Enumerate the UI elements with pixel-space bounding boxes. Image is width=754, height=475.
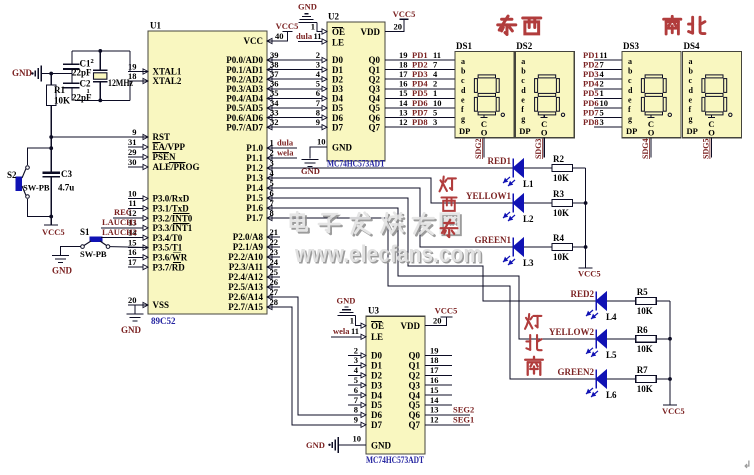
net PD8 stub to DS3 (583, 117, 622, 127)
svg-text:g: g (521, 115, 525, 124)
U3 pin 3 D1 stub (348, 355, 366, 368)
svg-text:P1.5: P1.5 (246, 193, 263, 203)
svg-text:DP: DP (519, 126, 530, 136)
svg-text:VDD: VDD (361, 27, 381, 37)
svg-text:PD6: PD6 (583, 98, 599, 108)
svg-text:f: f (461, 105, 464, 114)
net stub P1.0 dula (267, 138, 297, 149)
svg-text:20: 20 (394, 22, 403, 32)
svg-text:1: 1 (433, 88, 437, 98)
svg-text:www.elecfans.com: www.elecfans.com (294, 241, 482, 268)
svg-text:30: 30 (128, 157, 137, 167)
svg-text:17: 17 (430, 365, 439, 375)
svg-text:11: 11 (600, 50, 608, 60)
svg-text:14: 14 (430, 395, 439, 405)
wire P2.6 to U3 D6 (267, 297, 366, 415)
wire VSS to ground (135, 305, 148, 314)
svg-text:1: 1 (311, 22, 315, 32)
wire U2 Q6 / net PD7 to DS1 (385, 107, 455, 117)
U3 pin 7 D5 stub (348, 395, 366, 408)
svg-text:6: 6 (270, 188, 274, 198)
svg-text:U2: U2 (328, 12, 339, 22)
U3 pin 16 Q3 stub (425, 375, 452, 385)
wire P0.4 to U2 D4 (267, 88, 327, 101)
svg-text:LAUCH2: LAUCH2 (102, 227, 137, 237)
wire U2 Q5 / net PD6 to DS1 (385, 98, 455, 108)
U1 P2.4 stub (267, 276, 280, 278)
wire XTAL top node (72, 49, 130, 53)
svg-text:P3.1/TxD: P3.1/TxD (153, 204, 190, 214)
svg-text:c: c (461, 76, 465, 85)
svg-text:PD7: PD7 (412, 107, 428, 117)
svg-text:P1.3: P1.3 (246, 173, 263, 183)
svg-text:D3: D3 (371, 380, 382, 390)
wire SDG2 display common (474, 138, 484, 159)
svg-text:Q6: Q6 (408, 410, 420, 420)
wire S1 to P3.5 (110, 246, 148, 249)
svg-text:P1.6: P1.6 (246, 203, 263, 213)
svg-text:P3.5/T1: P3.5/T1 (153, 243, 183, 253)
op-amp U1 89C52 MCU body (148, 21, 267, 327)
wire P1.2 to RED1 (267, 167, 513, 169)
svg-text:36: 36 (270, 79, 279, 89)
svg-text:Q7: Q7 (368, 122, 380, 132)
svg-text:b: b (461, 67, 466, 76)
wire U2 Q4 / net PD5 to DS1 (385, 88, 455, 98)
svg-text:f: f (689, 105, 692, 114)
svg-text:L6: L6 (606, 390, 617, 400)
svg-text:PD2: PD2 (412, 59, 428, 69)
svg-text:P3.0/RxD: P3.0/RxD (153, 194, 190, 204)
U1 P2.5 stub (267, 286, 280, 288)
svg-text:Q1: Q1 (368, 65, 380, 75)
svg-text:R4: R4 (553, 233, 564, 243)
wire S1 to ground (61, 247, 81, 256)
svg-text:SEG1: SEG1 (453, 415, 474, 425)
svg-text:2: 2 (270, 148, 274, 158)
svg-text:12MHz: 12MHz (108, 78, 133, 88)
svg-text:dula: dula (296, 31, 313, 41)
ground GND below S1 (52, 256, 73, 276)
svg-text:RED1: RED1 (487, 156, 511, 166)
svg-text:P0.6/AD6: P0.6/AD6 (226, 113, 263, 123)
svg-text:MC74HC573ADT: MC74HC573ADT (366, 455, 424, 465)
svg-text:89C52: 89C52 (151, 316, 176, 326)
svg-text:PSEN: PSEN (153, 152, 177, 162)
net PD1 stub to DS3 (583, 50, 622, 60)
wire P0.5 to U2 D5 (267, 98, 327, 111)
U1 pin 37 P0.2/AD2 label (226, 74, 272, 84)
svg-text:GND: GND (371, 441, 392, 451)
U1 pin 14 P3.4/T0 stub (128, 228, 183, 243)
svg-text:3: 3 (270, 158, 274, 168)
U1 pin 11 P3.1/TxD stub (128, 198, 189, 213)
svg-text:P3.3/INT1: P3.3/INT1 (153, 223, 193, 233)
wire P1.3 to YELLOW1 (267, 178, 513, 203)
net PD7 stub to DS3 (583, 107, 622, 117)
svg-text:YELLOW1: YELLOW1 (466, 191, 512, 201)
svg-text:8: 8 (316, 107, 320, 117)
svg-text:9: 9 (316, 117, 320, 127)
resistor R7 10K (607, 365, 670, 394)
wire SDG5 display common (702, 138, 712, 159)
U1 pin 2 P1.1 label (246, 153, 272, 163)
svg-text:LE: LE (371, 332, 383, 342)
svg-text:5: 5 (354, 375, 358, 385)
U1 P2.1 stub (267, 246, 280, 248)
U1 pin 13 P3.3/INT1 stub (128, 218, 193, 233)
net PD2 stub to DS3 (583, 59, 622, 69)
U1 pin 15 P3.5/T1 stub (128, 237, 183, 252)
U3 pin labels (371, 321, 420, 451)
svg-text:VCC5: VCC5 (42, 227, 65, 237)
svg-text:23: 23 (270, 247, 279, 257)
net label REC on P3.2 (113, 207, 132, 218)
svg-text:11: 11 (433, 50, 441, 60)
svg-text:26: 26 (270, 277, 279, 287)
U1 pin 39 P0.0/AD0 label (226, 55, 272, 65)
U1 pin 27 P2.6/A14 label (228, 292, 272, 302)
svg-text:L1: L1 (523, 179, 534, 189)
wire U2 GND pin 10 to ground (310, 137, 327, 159)
svg-text:RST: RST (153, 132, 171, 142)
svg-text:e: e (461, 95, 465, 104)
svg-text:37: 37 (270, 69, 279, 79)
U1 P2.0 stub (267, 236, 280, 238)
svg-text:DS3: DS3 (623, 41, 640, 51)
svg-text:10: 10 (317, 137, 326, 147)
power VCC5 at U2 VDD pin 20 (385, 9, 415, 32)
svg-text:11: 11 (314, 31, 322, 41)
op-amp U3 MC74HC573 latch body (366, 306, 425, 466)
U3 pin 17 Q2 stub (425, 365, 452, 375)
svg-text:SDG5: SDG5 (702, 139, 711, 159)
U3 pin 13 Q6 stub (425, 405, 474, 415)
svg-text:10: 10 (128, 188, 137, 198)
svg-text:P1.0: P1.0 (246, 143, 263, 153)
U3 pin 12 Q7 stub (425, 415, 474, 425)
svg-text:D7: D7 (371, 420, 382, 430)
U1 pin 20 VSS stub (128, 295, 169, 310)
svg-text:DS1: DS1 (456, 41, 473, 51)
wire P1.6 to YELLOW2 (267, 208, 596, 339)
U1 pin 19 XTAL1 stub (128, 61, 182, 76)
svg-text:O: O (648, 128, 655, 138)
svg-text:P0.5/AD5: P0.5/AD5 (226, 103, 263, 113)
switch S2 SW-PB (7, 166, 50, 199)
svg-text:GND: GND (306, 440, 325, 450)
svg-text:D2: D2 (332, 74, 343, 84)
svg-text:11: 11 (351, 326, 359, 336)
svg-text:D1: D1 (332, 65, 343, 75)
svg-text:2: 2 (91, 58, 94, 65)
watermark text (291, 212, 484, 269)
wire to XTAL1 pin 19 (130, 51, 148, 72)
svg-text:PD8: PD8 (583, 117, 599, 127)
svg-text:1: 1 (270, 138, 274, 148)
svg-text:PD8: PD8 (412, 117, 428, 127)
svg-text:39: 39 (270, 50, 279, 60)
svg-text:10K: 10K (637, 384, 653, 394)
svg-text:D3: D3 (332, 84, 343, 94)
svg-text:20: 20 (128, 295, 137, 305)
svg-text:XTAL2: XTAL2 (153, 76, 182, 86)
svg-text:22: 22 (270, 237, 279, 247)
U1 pin 7 P1.6 label (246, 203, 272, 213)
svg-text:P1.4: P1.4 (246, 183, 263, 193)
svg-text:PD7: PD7 (583, 107, 599, 117)
svg-text:DP: DP (626, 126, 637, 136)
svg-text:P2.3/A11: P2.3/A11 (229, 262, 264, 272)
U1 pin 35 P0.4/AD4 label (226, 94, 272, 104)
svg-text:P0.2/AD2: P0.2/AD2 (226, 74, 263, 84)
svg-text:16: 16 (128, 247, 137, 257)
svg-text:SW-PB: SW-PB (23, 183, 50, 193)
LED L1 RED1 (487, 156, 534, 189)
svg-text:32: 32 (270, 117, 279, 127)
svg-text:b: b (521, 67, 526, 76)
svg-text:R1: R1 (54, 85, 65, 95)
svg-text:b: b (628, 67, 633, 76)
node east-west lamp vertical label (440, 177, 458, 237)
svg-text:a: a (689, 57, 693, 66)
svg-text:PD1: PD1 (583, 50, 599, 60)
wire XTAL bottom node (75, 99, 130, 103)
wire SDG4 display common (641, 138, 651, 159)
U3 pin 6 D4 stub (348, 385, 366, 398)
svg-text:LE: LE (332, 38, 344, 48)
svg-text:dula: dula (277, 138, 294, 148)
svg-text:C3: C3 (61, 169, 72, 179)
svg-text:DP: DP (459, 126, 470, 136)
svg-text:6: 6 (316, 88, 320, 98)
svg-text:wela: wela (277, 148, 294, 158)
svg-text:20: 20 (433, 316, 442, 326)
svg-text:a: a (628, 57, 632, 66)
node north-south title (664, 16, 705, 34)
svg-text:16: 16 (430, 375, 439, 385)
svg-text:Q2: Q2 (408, 371, 420, 381)
svg-text:d: d (689, 86, 694, 95)
svg-text:Q4: Q4 (408, 390, 420, 400)
svg-text:O: O (481, 128, 488, 138)
U1 pin 10 P3.0/RxD stub (128, 188, 190, 203)
U3 pin 14 Q5 stub (425, 395, 452, 405)
svg-text:18: 18 (399, 59, 408, 69)
net stub P1.1 wela (267, 148, 297, 159)
svg-text:S2: S2 (7, 170, 17, 180)
svg-text:21: 21 (270, 227, 279, 237)
svg-text:19: 19 (430, 345, 439, 355)
U1 pin 23 P2.2/A10 label (228, 252, 272, 262)
wire VCC rail north-south (668, 301, 672, 405)
7-segment display DS4 (683, 41, 742, 138)
svg-text:L4: L4 (606, 312, 617, 322)
svg-text:PD6: PD6 (412, 98, 428, 108)
U1 pin 24 P2.3/A11 label (229, 262, 272, 272)
svg-text:P0.4/AD4: P0.4/AD4 (226, 94, 263, 104)
svg-text:3: 3 (316, 59, 320, 69)
net PD4 stub to DS3 (583, 79, 622, 89)
wire U2 Q3 / net PD4 to DS1 (385, 79, 455, 89)
svg-text:EA/VPP: EA/VPP (153, 142, 186, 152)
wire P1.5 to RED2 (267, 198, 596, 301)
svg-text:GND: GND (332, 143, 353, 153)
svg-text:10K: 10K (553, 173, 569, 183)
svg-text:RED2: RED2 (570, 289, 594, 299)
svg-text:17: 17 (128, 257, 137, 267)
svg-text:6: 6 (354, 385, 358, 395)
wire P0.2 to U2 D2 (267, 69, 327, 82)
svg-text:VCC5: VCC5 (578, 269, 601, 279)
svg-text:2: 2 (354, 345, 358, 355)
svg-text:LAUCH1: LAUCH1 (102, 217, 137, 227)
svg-text:P2.0/A8: P2.0/A8 (233, 232, 264, 242)
svg-text:U3: U3 (368, 306, 379, 316)
power VCC5 at U3 VDD pin 20 (425, 306, 457, 326)
svg-text:27: 27 (270, 287, 279, 297)
ground GND at crystal caps (12, 66, 72, 82)
U1 pin 25 P2.4/A12 label (228, 272, 272, 282)
svg-text:38: 38 (270, 59, 279, 69)
svg-text:XTAL1: XTAL1 (153, 67, 182, 77)
capacitor C3 4.7u (43, 169, 75, 217)
svg-text:U1: U1 (150, 21, 161, 31)
7-segment display DS3 (622, 41, 681, 138)
U1 pin 16 P3.6/WR stub (128, 247, 188, 262)
svg-text:8: 8 (270, 208, 274, 218)
U1 pin 21 P2.0/A8 label (233, 232, 272, 242)
svg-text:5: 5 (600, 107, 604, 117)
wire U2 Q2 / net PD3 to DS1 (385, 69, 455, 79)
svg-text:3: 3 (433, 117, 437, 127)
svg-text:MC74HC573ADT: MC74HC573ADT (327, 159, 385, 169)
svg-text:1: 1 (350, 316, 354, 326)
svg-text:P2.4/A12: P2.4/A12 (228, 272, 263, 282)
wire P1.4 to GREEN1 (267, 188, 513, 247)
svg-text:VCC: VCC (244, 36, 264, 46)
U1 pin 32 P0.7/AD7 label (226, 122, 272, 132)
svg-text:PD2: PD2 (583, 59, 599, 69)
svg-text:e: e (521, 95, 525, 104)
resistor R1 10K (47, 74, 71, 106)
U3 pin 2 D0 stub (348, 345, 366, 358)
svg-text:D0: D0 (332, 55, 343, 65)
net label wela wire to U3 LE pin 11 (331, 326, 366, 339)
svg-text:ALE/PROG: ALE/PROG (153, 162, 200, 172)
svg-text:DS4: DS4 (684, 41, 701, 51)
svg-text:P0.7/AD7: P0.7/AD7 (226, 122, 263, 132)
svg-text:P2.2/A10: P2.2/A10 (228, 252, 263, 262)
svg-text:GND: GND (52, 266, 73, 276)
svg-text:4.7u: 4.7u (58, 183, 74, 193)
LED L4 RED2 (570, 289, 617, 322)
wire P2.7 to U3 D7 (267, 307, 366, 425)
svg-text:SW-PB: SW-PB (80, 249, 107, 259)
svg-text:L5: L5 (606, 350, 617, 360)
svg-text:12: 12 (399, 117, 408, 127)
svg-text:OE: OE (371, 321, 384, 331)
svg-text:YELLOW2: YELLOW2 (549, 327, 595, 337)
net label LAUCH2 on P3.4 (101, 227, 137, 238)
svg-text:2: 2 (316, 50, 320, 60)
U1 pin 31 EA/VPP stub (128, 137, 186, 152)
svg-text:40: 40 (275, 31, 284, 41)
svg-text:GND: GND (298, 2, 317, 12)
U3 pin 5 D3 stub (348, 375, 366, 388)
wire P0.3 to U2 D3 (267, 79, 327, 92)
ground GND above U3 OE pin 1 (337, 296, 367, 329)
svg-text:D2: D2 (371, 371, 382, 381)
net PD3 stub to DS3 (583, 69, 622, 79)
U1 pin 26 P2.5/A13 label (228, 282, 272, 292)
U1 pin 6 P1.5 label (246, 193, 272, 203)
crystal Y1 12MHz (87, 51, 134, 101)
U2 pin labels (332, 27, 380, 153)
U1 pin 22 P2.1/A9 label (233, 242, 272, 252)
svg-text:f: f (628, 105, 631, 114)
svg-text:e: e (689, 95, 693, 104)
wire U2 Q7 / net PD8 to DS1 (385, 117, 455, 127)
wire P0.0 to U2 D0 (267, 50, 327, 63)
svg-text:e: e (628, 95, 632, 104)
U1 pin 36 P0.3/AD3 label (226, 84, 272, 94)
wire U2 Q0 / net PD1 to DS1 (385, 50, 455, 60)
wire S2 top branch (28, 146, 54, 165)
U3 pin 15 Q4 stub (425, 385, 452, 395)
svg-text:SDG2: SDG2 (474, 139, 483, 159)
svg-text:R6: R6 (637, 325, 648, 335)
svg-text:c: c (521, 76, 525, 85)
svg-text:D5: D5 (332, 103, 343, 113)
svg-text:VCC5: VCC5 (435, 306, 458, 316)
svg-text:15: 15 (430, 385, 439, 395)
svg-text:L2: L2 (523, 214, 534, 224)
svg-text:2: 2 (433, 79, 437, 89)
svg-text:R3: R3 (553, 189, 564, 199)
svg-text:10K: 10K (553, 208, 569, 218)
U1 pin 38 P0.1/AD1 label (226, 65, 272, 75)
net label dula wire to U2 LE pin 11 (296, 31, 327, 44)
svg-text:↲: ↲ (743, 460, 751, 470)
svg-text:SDG4: SDG4 (641, 139, 650, 159)
svg-text:VDD: VDD (401, 321, 421, 331)
resistor R2 10K (524, 154, 586, 183)
svg-text:19: 19 (399, 50, 408, 60)
svg-text:24: 24 (270, 257, 279, 267)
svg-text:10K: 10K (553, 252, 569, 262)
svg-text:14: 14 (399, 98, 408, 108)
svg-text:Q2: Q2 (368, 74, 380, 84)
7-segment display DS2 (515, 41, 574, 138)
svg-text:9: 9 (354, 415, 358, 425)
svg-text:PD3: PD3 (583, 69, 599, 79)
ground GND at U2 pin 10 (301, 160, 320, 177)
svg-text:c: c (628, 76, 632, 85)
capacitor C1 22pF (63, 51, 92, 78)
svg-text:D6: D6 (371, 410, 382, 420)
svg-text:VCC5: VCC5 (393, 9, 416, 19)
svg-text:L3: L3 (523, 258, 534, 268)
U3 pin 9 D7 stub (354, 415, 366, 428)
svg-text:5: 5 (270, 178, 274, 188)
svg-text:29: 29 (128, 147, 137, 157)
svg-text:34: 34 (270, 98, 279, 108)
svg-text:d: d (628, 86, 633, 95)
U1 pin 40 VCC label (244, 36, 273, 46)
svg-text:O: O (541, 128, 548, 138)
svg-text:13: 13 (399, 107, 408, 117)
